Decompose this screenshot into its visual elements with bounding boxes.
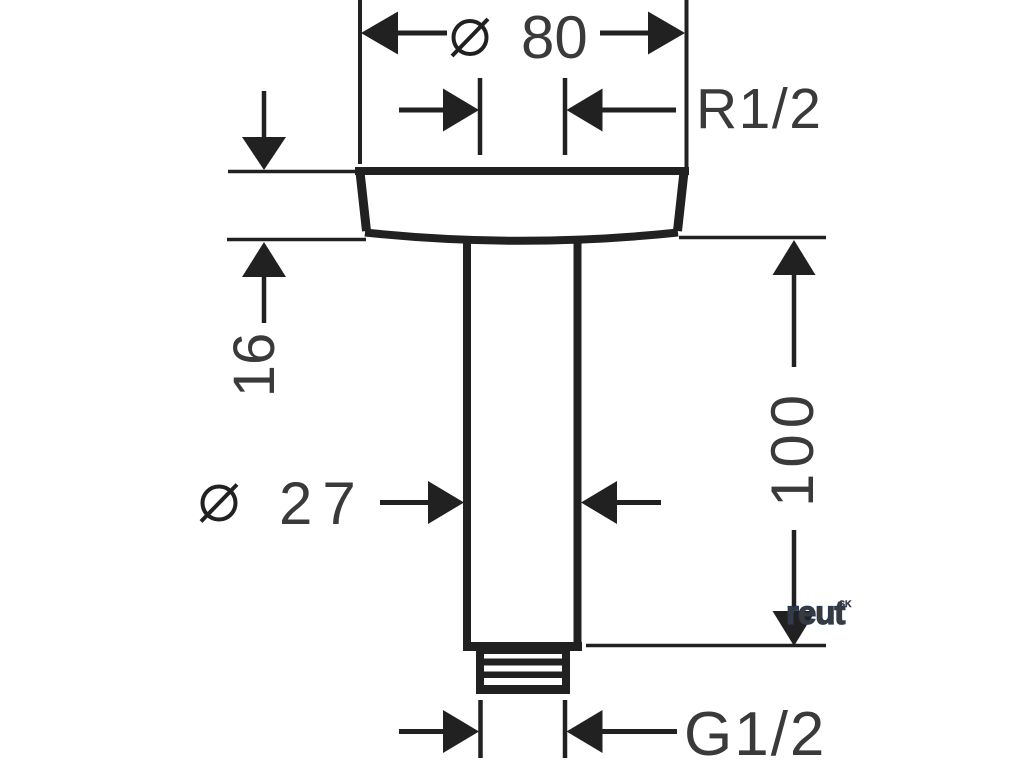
label diameter symbol of D27 — [201, 485, 237, 522]
pipe right wall — [574, 239, 582, 650]
dimension R1/2 right arrow — [567, 89, 677, 132]
thread groove 1 — [484, 654, 562, 659]
label R1/2 text — [696, 77, 822, 141]
label G1/2 text — [684, 700, 826, 768]
thread groove 2 — [484, 666, 562, 672]
dimension G1/2 left arrow — [399, 710, 479, 753]
label 16 text (rotated) — [222, 333, 287, 398]
pipe bottom end bar — [463, 642, 582, 651]
extension line left of dimension R1/2 — [478, 78, 483, 155]
extension line left of dimension G1/2 — [478, 700, 483, 758]
label 27 text — [279, 470, 366, 537]
extension line right of dimension D80 — [685, 0, 689, 170]
dimension 16 up arrow — [242, 242, 286, 323]
watermark reut text — [786, 594, 845, 631]
extension line left of dimension D80 — [358, 0, 362, 164]
svg-text:80: 80 — [521, 4, 588, 71]
dimension D80 left arrow — [361, 12, 447, 55]
dimension D27 left arrow — [380, 481, 464, 524]
dimension D27 right arrow — [581, 481, 661, 524]
ceiling reference line lower left — [227, 238, 366, 242]
extension line right of dimension R1/2 — [563, 78, 568, 155]
pipe left wall — [463, 239, 471, 650]
threaded connector block — [476, 650, 570, 694]
svg-text:reut: reut — [786, 594, 845, 631]
dimension G1/2 right arrow — [567, 710, 678, 753]
label diameter symbol of D80 — [452, 19, 488, 56]
dimension R1/2 left arrow — [399, 89, 479, 132]
flange underside extension line right — [679, 236, 826, 240]
svg-text:R1/2: R1/2 — [696, 77, 822, 141]
svg-text:16: 16 — [222, 333, 287, 398]
svg-text:G1/2: G1/2 — [684, 700, 826, 768]
label 80 text — [521, 4, 588, 71]
bottom extension line right — [586, 644, 826, 648]
extension line right of dimension G1/2 — [563, 700, 568, 758]
ceiling reference line upper left — [228, 170, 356, 174]
dimension D80 right arrow — [600, 12, 685, 55]
flange top edge — [355, 167, 689, 175]
svg-text:SK: SK — [839, 599, 852, 609]
dimension 16 down arrow — [242, 91, 286, 170]
dimension 100 lower line — [792, 530, 797, 612]
dimension 100 up arrow — [773, 240, 816, 367]
svg-text:27: 27 — [279, 470, 366, 537]
watermark superscript — [839, 599, 852, 609]
thread groove 3 — [484, 678, 562, 685]
dimension 100 down arrow — [773, 611, 816, 646]
flange right side — [678, 172, 685, 231]
flange left side — [360, 172, 367, 231]
label 100 text (rotated) — [759, 389, 826, 507]
flange bottom arc — [365, 233, 678, 241]
svg-text:100: 100 — [759, 389, 826, 507]
